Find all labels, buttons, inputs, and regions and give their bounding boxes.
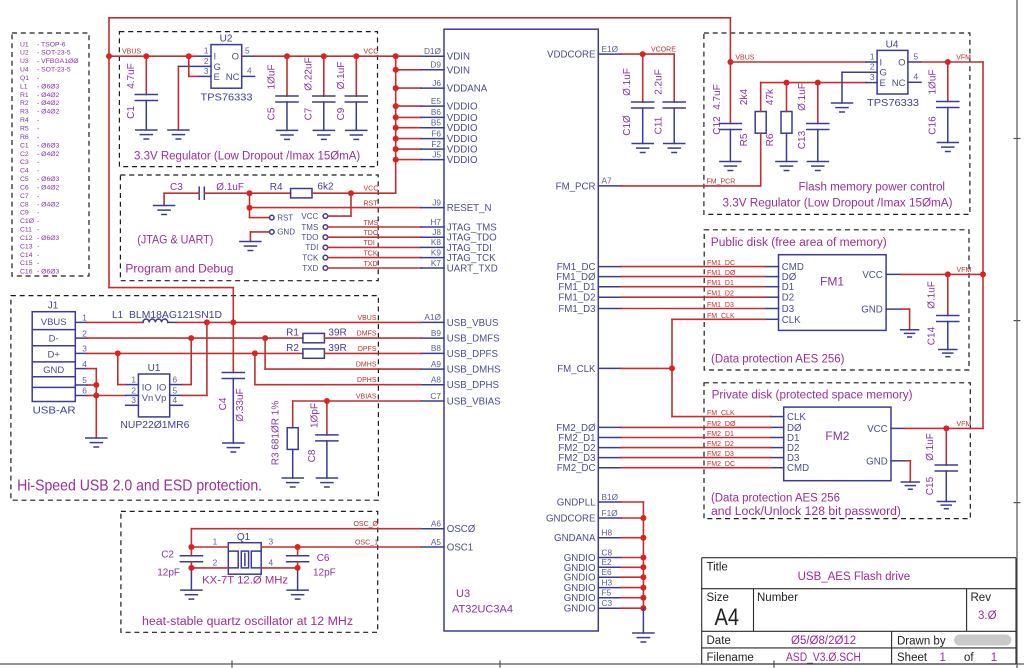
resistor R5 [755,83,766,186]
svg-text:B5: B5 [431,118,442,128]
ground C11 [664,144,685,153]
label C13 value [797,83,808,111]
title block A4 [715,604,740,631]
svg-text:Ø.1uF: Ø.1uF [216,182,244,193]
ground U3 [633,633,654,642]
svg-text:4: 4 [247,66,252,76]
net label VCC [364,49,379,56]
label C5 ref [267,107,278,120]
svg-text:-: - [37,227,39,234]
svg-text:Ø.1uF: Ø.1uF [336,62,347,90]
svg-text:AT32UC3A4: AT32UC3A4 [452,604,513,616]
net label TDI [364,240,375,247]
U3 pin FM1_D2 [558,293,621,304]
svg-text:C5: C5 [267,107,278,120]
wire FM2_DØ [621,426,771,428]
node VBUS U4 junction [727,59,733,65]
svg-text:L1: L1 [20,83,28,90]
svg-text:-: - [37,75,39,82]
resistor R6 [781,83,792,162]
label C11 value [654,69,665,95]
svg-text:2: 2 [870,62,875,72]
label C13 ref [797,130,808,149]
U3 pin J5 VDDIO [421,149,478,166]
svg-text:R2: R2 [286,343,299,354]
net label FM_CLK FM1 [707,313,735,320]
svg-text:-: - [37,260,39,267]
net label FM2_D1 FM2 [707,431,734,438]
sheet border bottom [0,661,1024,668]
label J1 value USB-AR [33,406,76,417]
svg-text:A8: A8 [431,375,442,385]
svg-text:TDO: TDO [364,230,379,237]
svg-text:VFM: VFM [957,267,972,274]
U2 pin 5 O [232,46,255,63]
ground C7 [313,130,334,139]
svg-text:5: 5 [82,375,87,385]
svg-text:C2: C2 [161,550,174,561]
svg-text:K8: K8 [431,237,442,247]
svg-text:F1Ø: F1Ø [602,508,619,518]
title block Number [757,592,798,604]
U3 pin K8 JTAG_TDI [421,237,492,254]
svg-text:- SOT-23-5: - SOT-23-5 [37,50,71,57]
label FM1 [820,275,844,289]
node VBUS C4 tap [230,319,236,325]
svg-text:-: - [37,168,39,175]
U3 pin FM_CLK [557,364,621,375]
svg-text:FM_CLK: FM_CLK [707,410,735,417]
svg-text:E1Ø: E1Ø [602,44,619,54]
svg-text:C7: C7 [303,107,314,120]
svg-text:1ØpF: 1ØpF [310,403,321,428]
svg-text:R5: R5 [20,126,29,133]
wire D+ row [87,352,303,354]
U3 pin F5 [564,588,622,605]
svg-text:1: 1 [82,313,87,323]
svg-text:VBUS: VBUS [357,315,376,322]
wire U1 pin5 to VBUS [183,322,207,395]
port TMS [301,223,421,232]
svg-text:C12: C12 [20,235,33,242]
U3 pin B6 VDDIO [421,107,478,124]
node J1 pin6 junction [93,393,99,399]
U1 pin 4 [170,395,183,405]
svg-text:VCC: VCC [364,49,379,56]
net label VBUS right [735,55,754,62]
svg-text:TDO: TDO [301,233,318,242]
wire VDD distribution [396,56,421,193]
ground R3 [282,478,303,487]
svg-text:VCC: VCC [862,270,882,281]
svg-text:C3: C3 [602,598,613,608]
label C7 value [303,57,314,90]
svg-text:D1: D1 [782,282,794,293]
ground FM1 [901,330,919,337]
node C9 tap [353,53,359,59]
svg-text:3: 3 [870,72,875,82]
svg-text:6k2: 6k2 [317,182,334,193]
label C14 value [927,281,938,309]
capacitor C1 [135,56,157,130]
title block title text [798,571,911,583]
program and debug section box [120,175,378,281]
svg-text:- VFBGA1ØØ: - VFBGA1ØØ [37,58,79,65]
svg-text:Vp: Vp [155,393,167,404]
node C14 tap [945,271,951,277]
net label VFM top [956,55,971,62]
svg-text:VDIN: VDIN [447,52,470,63]
svg-text:BLM18AG121SN1D: BLM18AG121SN1D [129,310,222,321]
title block Sheet [897,652,928,664]
label C8 value [310,403,321,428]
wire GND stack to ground [642,608,644,633]
svg-text:USB_DMHS: USB_DMHS [447,365,501,376]
svg-text:1ØuF: 1ØuF [267,64,278,89]
svg-text:GNDANA: GNDANA [554,533,596,544]
svg-text:CLK: CLK [787,412,806,423]
svg-text:heat-stable quartz oscillator: heat-stable quartz oscillator at 12 MHz [142,616,353,628]
label Q1 ref [237,532,251,543]
ground U2 G [168,130,189,139]
wire RST vertical [249,193,251,217]
svg-text:- Ø4Ø2: - Ø4Ø2 [37,151,60,158]
svg-text:U1: U1 [20,41,29,48]
label C6 ref [317,553,330,564]
wire R4 to VCC [312,192,396,194]
svg-text:A4: A4 [715,604,740,631]
resistor R1 [303,333,325,342]
FM2 pin VCC [867,424,905,435]
svg-text:VFM: VFM [956,55,971,62]
svg-text:C15: C15 [20,260,33,267]
svg-text:VDIN: VDIN [447,65,470,76]
wire U2 E to VBUS rail [189,56,198,76]
svg-text:-: - [37,252,39,259]
svg-text:2: 2 [131,385,136,395]
svg-text:D9: D9 [430,60,441,70]
crystal Q1 body [228,543,261,575]
U4 pin 3 E [866,72,886,89]
svg-text:UART_TXD: UART_TXD [447,264,498,275]
svg-text:FM1: FM1 [820,275,844,289]
node J1 pin5 junction [93,382,99,388]
private disk section box [704,383,970,519]
svg-text:C4: C4 [218,397,229,410]
U3 pin A9 USB_DMHS [421,359,501,376]
svg-text:R3: R3 [20,109,29,116]
U3 pin F2 VDDIO [421,139,478,156]
svg-text:C4: C4 [20,168,29,175]
svg-text:2k4: 2k4 [739,89,750,106]
svg-text:-: - [37,218,39,225]
label J1 ref [48,301,59,312]
FM2 pin D3 [771,453,799,464]
U3 pin E5 VDDIO [421,96,478,113]
label U1 ref [148,363,161,374]
svg-text:TDI: TDI [364,240,375,247]
U2 pin 2 G [178,56,220,73]
svg-text:U2: U2 [20,50,29,57]
svg-text:VDDIO: VDDIO [447,134,478,145]
ground C3 [154,206,175,215]
J1 pin 4 [75,359,87,369]
label R3 [271,401,282,466]
svg-text:Ø.1uF: Ø.1uF [925,433,936,461]
svg-text:USB_VBIAS: USB_VBIAS [447,397,501,408]
svg-text:VCORE: VCORE [651,47,676,54]
svg-text:A5: A5 [431,537,442,547]
U3 pin FM2_D2 [558,443,621,454]
net label FM1_D3 FM1 [707,302,734,309]
label U3 value AT32UC3A4 [452,604,513,616]
svg-text:Ø.1uF: Ø.1uF [622,68,633,96]
svg-text:A9: A9 [431,359,442,369]
ground C15 [937,502,955,509]
label C4 value [235,388,246,421]
svg-text:F2: F2 [431,139,441,149]
label C15 value [925,433,936,461]
net label FM1_D2 FM1 [707,291,734,298]
U3 pin FM2_D3 [558,453,621,464]
svg-text:FM1_D2: FM1_D2 [558,293,595,304]
svg-text:R5: R5 [739,133,750,146]
wire OSC1 [298,546,421,548]
svg-text:VDDIO: VDDIO [447,123,478,134]
J1 pin 6 [75,386,87,396]
svg-text:NUP22Ø1MR6: NUP22Ø1MR6 [120,420,189,431]
wire C3 to R4 [204,192,290,194]
U3 pin E1Ø [547,44,621,61]
svg-text:C8: C8 [602,547,613,557]
svg-text:Sheet: Sheet [897,652,928,664]
wire FM1_D1 [621,286,765,288]
node R4 VCC junction [348,190,354,196]
label R4 value [317,182,334,193]
svg-text:GND: GND [861,305,883,316]
J1 cell D+ [47,350,60,361]
svg-text:FM2_DC: FM2_DC [557,463,596,474]
node C6 top [295,544,301,550]
svg-text:R1: R1 [286,328,299,339]
svg-text:DMFS: DMFS [357,331,377,338]
svg-text:- Ø4Ø2: - Ø4Ø2 [37,92,60,99]
ground C5 [277,130,298,139]
svg-text:VBUS: VBUS [735,55,754,62]
svg-text:C15: C15 [925,476,936,495]
svg-text:C8: C8 [20,201,29,208]
capacitor C6 [287,547,309,590]
node VBUS rail junction [106,53,112,59]
op-amp U4 body [877,50,908,94]
ground C4 [223,443,244,452]
svg-text:B6: B6 [431,107,442,117]
wire J1 GND pins [87,369,96,438]
inductor L1 [87,319,176,322]
svg-text:GNDIO: GNDIO [564,593,596,604]
U3 pin C7 USB_VBIAS [421,391,501,408]
U3 pin D9 VDIN [421,60,470,77]
net label VFM FM1 [957,267,972,274]
net label TDO [364,230,379,237]
svg-text:3: 3 [82,344,87,354]
J1 cell D- [49,334,59,345]
U4 pin 4 NC [892,72,921,89]
wire VBUS feed to USB section [109,288,233,323]
net label VBUS [122,49,141,56]
svg-text:C13: C13 [797,130,808,149]
FM1 pin GND [861,305,901,316]
connector J1 body [32,312,75,402]
capacitor C9 [345,56,367,130]
svg-text:-: - [37,117,39,124]
svg-text:5: 5 [245,46,250,56]
net label VBUS row [357,315,376,322]
net label FM2_D3 FM2 [707,451,734,458]
U3 pin D1Ø VDIN [421,46,470,63]
svg-text:C2: C2 [20,151,29,158]
svg-text:4: 4 [269,558,274,568]
svg-text:VCC: VCC [867,424,887,435]
U2 pin 4 NC [226,66,255,83]
svg-text:Ø.1uF: Ø.1uF [927,281,938,309]
node D+ DPHS tap [252,350,258,356]
U3 pin FM1_D1 [558,282,621,293]
wire VFM from U4 [921,61,983,63]
svg-text:O: O [232,52,239,63]
capacitor C16 [937,62,959,143]
svg-text:USB_AES Flash drive: USB_AES Flash drive [798,571,911,583]
U3 pin FM1_D3 [558,304,621,315]
net label TMS [364,220,379,227]
U3 pin FM1_DC [557,262,622,273]
svg-text:(JTAG & UART): (JTAG & UART) [137,233,213,247]
capacitor C7 [313,56,335,130]
svg-text:RESET_N: RESET_N [447,203,492,214]
wire VBIAS [293,400,421,402]
svg-text:1: 1 [204,46,209,56]
label C3 ref [170,182,183,193]
label C5 value [267,64,278,89]
svg-text:4: 4 [82,359,87,369]
wire J1 pin6 to U1 Vn [96,395,125,397]
label R6 value [765,88,776,105]
svg-text:TCK: TCK [364,250,378,257]
svg-text:-: - [37,210,39,217]
net label OSC_1 [355,540,378,547]
Q1 pin 4 [261,558,297,568]
FM1 pin D1 [766,282,795,293]
net label TCK [364,250,378,257]
svg-text:U3: U3 [20,58,29,65]
title block sheet values [940,652,998,664]
svg-text:C1: C1 [126,106,137,119]
U4 pin 2 G [842,62,887,79]
FM1 pin CMD [766,262,804,273]
svg-text:39R: 39R [328,343,346,354]
svg-text:3.Ø: 3.Ø [978,610,997,622]
svg-text:Vn: Vn [142,393,154,404]
svg-text:CMD: CMD [787,463,809,474]
svg-text:(Data protection AES 256): (Data protection AES 256) [711,354,845,366]
port TCK [302,253,421,262]
net label FM1_D1 FM1 [707,280,734,287]
label C2 ref [161,550,174,561]
wire E rail [761,82,866,84]
node C2 top [188,544,194,550]
node C16 tap [945,59,951,65]
J1 pin 2 [75,328,87,338]
title block frame [702,558,1016,664]
svg-text:A6: A6 [431,519,442,529]
svg-text:USB_DPFS: USB_DPFS [447,349,499,360]
title block Rev [971,592,992,604]
wire FM2 GND [905,461,910,482]
U3 pin B5 VDDIO [421,118,478,135]
port RST [250,213,294,222]
U3 pin B1Ø [557,492,622,509]
svg-text:O: O [898,58,905,69]
U1 pin 6 [170,375,183,385]
capacitor C8 [316,401,338,478]
svg-text:Q1: Q1 [20,75,29,82]
U3 pin E6 [564,567,622,584]
wire VBUS right vertical [729,18,731,124]
wire FM1_D2 [621,296,765,298]
caption (JTAG &amp; UART) [137,233,213,247]
svg-text:- Ø4Ø2: - Ø4Ø2 [37,109,60,116]
svg-text:F5: F5 [602,588,612,598]
svg-text:- TSOP-6: - TSOP-6 [37,41,66,48]
Q1 pin 1 [191,537,228,548]
svg-text:-: - [37,243,39,250]
svg-text:CLK: CLK [782,315,801,326]
svg-text:R2: R2 [20,100,29,107]
svg-text:2: 2 [204,56,209,66]
U1 pin 3 [126,395,139,405]
svg-text:- Ø4Ø2: - Ø4Ø2 [37,100,60,107]
svg-text:C3: C3 [170,182,183,193]
node D- DMHS tap [262,335,268,341]
svg-text:JTAG_TCK: JTAG_TCK [447,253,496,264]
FM1 pin VCC [862,270,901,281]
svg-text:J8: J8 [432,227,441,237]
svg-text:3: 3 [204,66,209,76]
J1 pin 5 [75,375,87,385]
wire FM1_DC [621,266,765,268]
label C2 value [157,568,180,579]
capacitor C15 [935,428,957,501]
J1 pin 3 [75,344,87,354]
svg-text:(Data protection AES 256: (Data protection AES 256 [711,492,840,504]
wire RESET_N [250,207,422,209]
U3 pin H7 JTAG_TMS [421,217,497,234]
svg-text:4: 4 [914,72,919,82]
label L1 value [129,310,222,321]
label C15 ref [925,476,936,495]
svg-text:VCC: VCC [301,212,318,221]
caption 3.3V Regulator left [134,150,360,162]
wire FM1_D3 [621,308,765,310]
Q1 pin 2 [191,558,228,568]
svg-text:12pF: 12pF [313,568,336,579]
svg-text:USB_DMFS: USB_DMFS [447,334,500,345]
title block drawn blob [954,635,1011,646]
svg-text:- Ø6Ø3: - Ø6Ø3 [37,269,60,276]
U3 pin A7 [556,176,622,193]
svg-text:Q1: Q1 [237,532,251,543]
node U2 E junction [186,53,192,59]
